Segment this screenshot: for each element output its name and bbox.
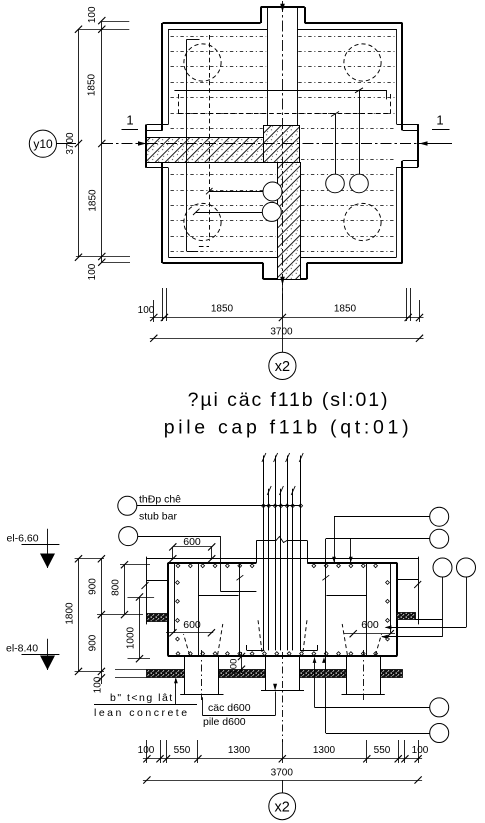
plan bottom dimension lines [153, 300, 155, 322]
svg-text:el-6.60: el-6.60 [7, 533, 39, 545]
wall cut strip bottom (plan, hatched) [278, 163, 301, 280]
svg-text:cäc d600: cäc d600 [208, 702, 251, 714]
svg-text:1850: 1850 [211, 304, 234, 315]
svg-text:1300: 1300 [313, 745, 336, 756]
plan grid dotted rows [171, 36, 267, 38]
svg-text:1000: 1000 [126, 626, 137, 649]
bar bottom hooks (section) [247, 650, 265, 652]
svg-text:100: 100 [93, 676, 104, 693]
vertical centerline (plan) [282, 1, 284, 300]
svg-text:900: 900 [88, 634, 99, 651]
dim 600 (section inside right) [344, 633, 395, 635]
wall stub above cap with break line (section) [256, 541, 258, 563]
svg-text:stub bar: stub bar [139, 510, 177, 522]
callout circle R2 [430, 529, 449, 548]
svg-text:100: 100 [229, 659, 240, 675]
top rebar line (section) [147, 558, 419, 560]
svg-text:y10: y10 [33, 137, 53, 151]
pile P1 below cap (plan, dashed circle) [184, 44, 221, 81]
interior rebar horizontals (section) [198, 595, 238, 597]
svg-text:900: 900 [88, 578, 99, 595]
svg-text:3700: 3700 [270, 327, 293, 338]
dowel leaders (plan left) [209, 191, 263, 193]
wall vertical bars (section) [263, 456, 265, 651]
svg-text:b" t<ng lât: b" t<ng lât [110, 692, 174, 704]
side rebar verticals (section) [239, 563, 241, 656]
pile P2 below cap (plan, dashed circle) [344, 44, 381, 81]
callout circle 2 (left) [119, 527, 138, 546]
dim 600 (section top-left) [173, 546, 212, 548]
callout circle R6 [430, 724, 449, 743]
svg-text:100: 100 [87, 263, 98, 280]
rebar diamond marks (section perimeter) [176, 564, 180, 568]
svg-text:pile d600: pile d600 [203, 716, 246, 728]
svg-text:?µi cäc f11b (sl:01): ?µi cäc f11b (sl:01) [188, 389, 390, 411]
svg-text:1850: 1850 [88, 189, 99, 212]
callout circle R5 [430, 698, 449, 717]
leader R3 [442, 577, 444, 637]
svg-text:x2: x2 [275, 359, 290, 375]
vertical rebar zone outline (plan) [186, 39, 188, 251]
left wall wing (section) [146, 557, 148, 625]
svg-text:100: 100 [138, 305, 155, 316]
svg-text:x2: x2 [275, 800, 290, 816]
svg-text:1: 1 [436, 113, 443, 128]
plan left dimension lines [78, 29, 80, 257]
svg-text:1: 1 [126, 113, 133, 128]
svg-text:1850: 1850 [334, 304, 357, 315]
pile cap inner edge line (plan) [168, 29, 267, 31]
right wall wing (section) [418, 557, 420, 625]
leader R1 [334, 516, 430, 518]
leader circle2 to wall bars [138, 536, 221, 538]
svg-text:600: 600 [361, 619, 379, 631]
section left dimension chains [78, 559, 80, 672]
pile P3 below cap (plan, dashed circle) [184, 203, 221, 240]
left wing hatch block (soil/concrete) [147, 614, 168, 622]
svg-text:el-8.40: el-8.40 [6, 643, 38, 655]
svg-text:600: 600 [183, 619, 201, 631]
leader R2 [326, 538, 430, 540]
svg-text:lean concrete: lean concrete [94, 707, 190, 719]
callout circle R3 [433, 558, 452, 577]
horizontal rebar zone outline (plan) [174, 90, 386, 92]
right wing hatch block (soil/concrete) [397, 613, 416, 620]
wall cut band left (plan, hatched) [147, 138, 264, 163]
svg-text:800: 800 [111, 579, 122, 596]
svg-text:1850: 1850 [87, 73, 98, 96]
grid bubble y10 [29, 130, 56, 157]
svg-text:thÐp chê: thÐp chê [139, 493, 181, 505]
svg-text:550: 550 [374, 745, 391, 756]
plan count bubble x2 [269, 352, 296, 379]
svg-text:100: 100 [412, 745, 429, 756]
svg-text:100: 100 [138, 745, 155, 756]
callout circle R1 [430, 507, 449, 526]
section bottom dimension lines [146, 740, 148, 763]
pile P4 below cap (plan, dashed circle) [344, 203, 381, 240]
dim 600 (section inside left) [166, 632, 213, 634]
leader R6 [326, 733, 430, 735]
leader R4 [466, 577, 468, 627]
wall above cap (plan, top leg outline) [267, 7, 269, 126]
wall junction block (plan, hatched) [264, 126, 300, 163]
svg-text:600: 600 [183, 536, 201, 548]
dowel leader lines (plan) [335, 114, 337, 174]
stub bar leader [137, 505, 301, 507]
leader R5 [315, 707, 430, 709]
svg-text:1800: 1800 [65, 602, 76, 625]
dowel circle B (plan) [350, 174, 369, 193]
svg-text:pile cap f11b (qt:01): pile cap f11b (qt:01) [164, 417, 413, 439]
callout circle R4 [457, 558, 476, 577]
lean concrete layer (section, speckled) [147, 670, 185, 678]
svg-text:550: 550 [174, 745, 191, 756]
pile dowel splays (dashed) [184, 634, 190, 655]
dowel circle A (plan) [326, 174, 345, 193]
pile 1 stub (section) [185, 656, 219, 695]
horizontal centerline (plan) [102, 143, 145, 145]
dowel circle D (plan) [262, 202, 281, 221]
section count bubble x2 [282, 780, 284, 793]
pile cap outline (plan, outer edge with wall notches) [163, 22, 261, 24]
pile cap body (section 1-1) [168, 562, 257, 564]
dowel circle C (plan) [263, 182, 282, 201]
pile 2 stub (section, center) [266, 656, 300, 691]
svg-text:3700: 3700 [271, 768, 294, 779]
svg-text:1300: 1300 [228, 745, 251, 756]
pile 3 stub (section) [347, 656, 381, 695]
svg-text:100: 100 [87, 6, 98, 23]
dim 100 (lean concrete thickness) [241, 652, 243, 673]
callout circle - stub bar [118, 496, 137, 515]
